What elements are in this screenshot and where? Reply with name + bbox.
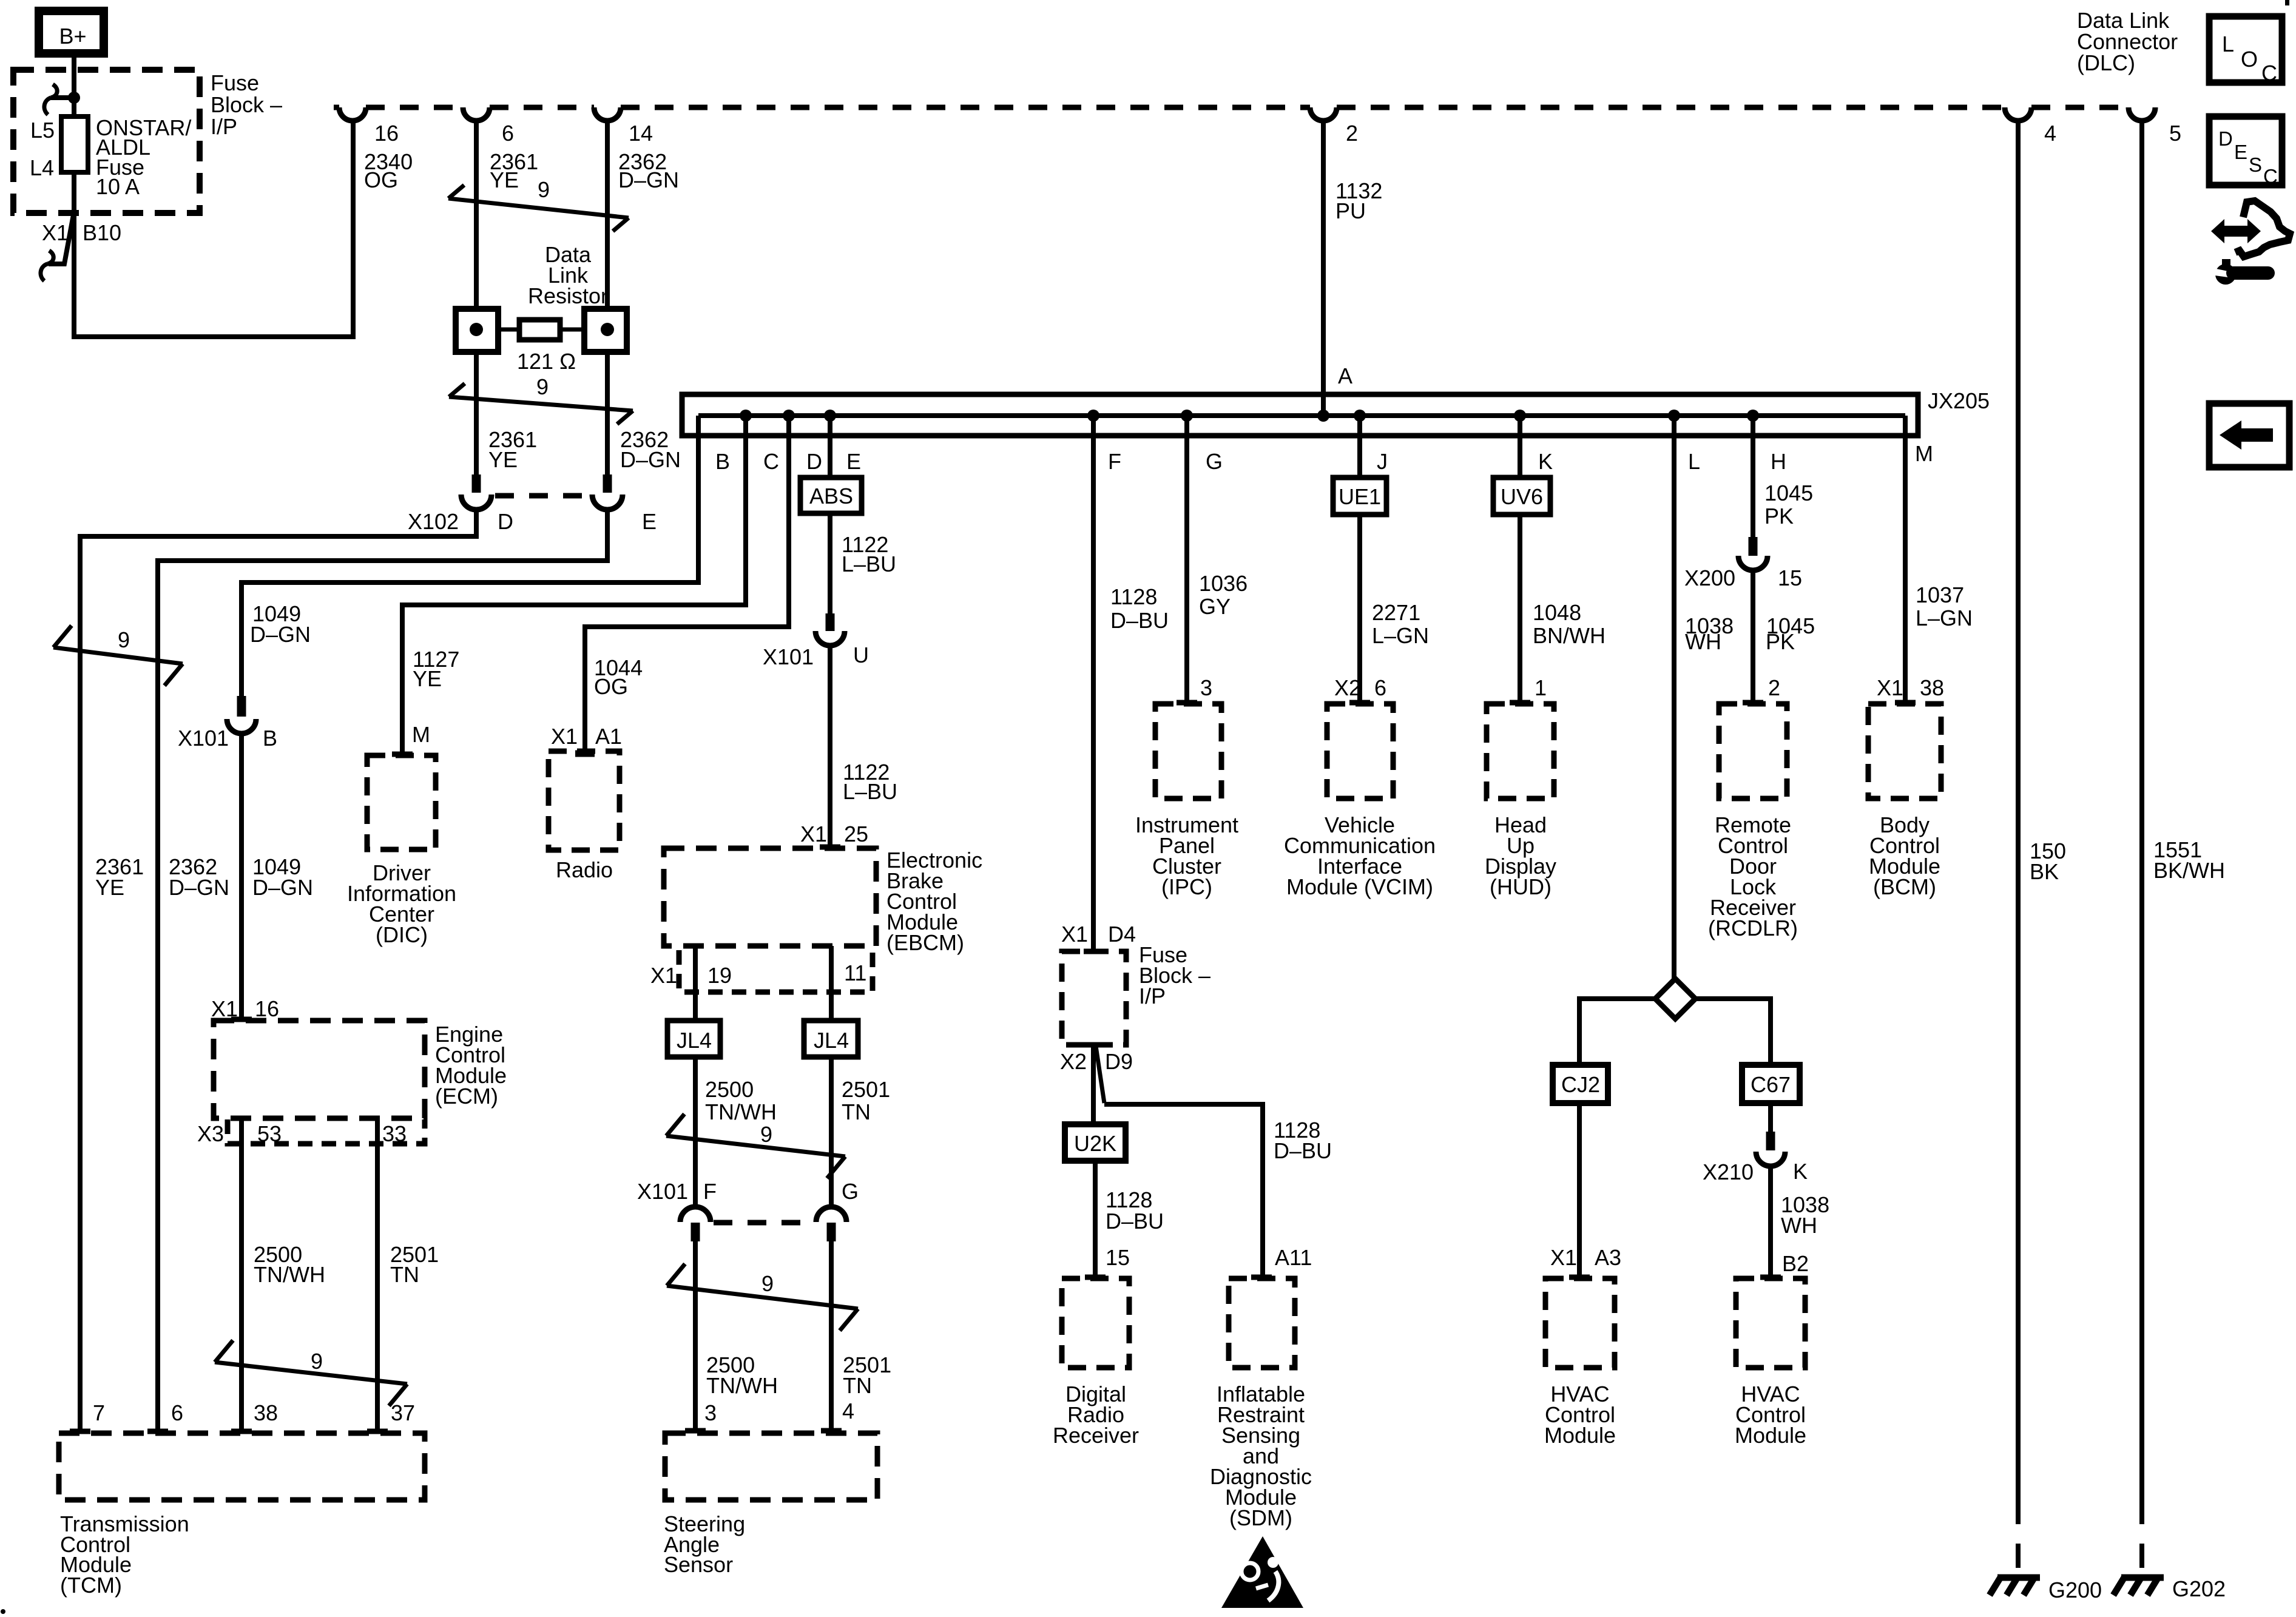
svg-text:C: C [763, 449, 779, 474]
svg-text:L4: L4 [30, 155, 54, 180]
svg-text:OG: OG [364, 167, 398, 192]
svg-text:Block –: Block – [211, 92, 282, 117]
svg-text:F: F [1108, 449, 1121, 474]
svg-text:2: 2 [1346, 121, 1358, 146]
svg-text:9: 9 [538, 177, 550, 202]
svg-text:TN: TN [843, 1373, 872, 1398]
svg-text:I/P: I/P [1139, 984, 1166, 1008]
svg-text:X200: X200 [1684, 565, 1735, 590]
svg-text:PU: PU [1335, 198, 1366, 223]
svg-text:11: 11 [844, 960, 866, 985]
svg-text:(RCDLR): (RCDLR) [1708, 916, 1798, 940]
svg-text:H: H [1771, 449, 1786, 474]
svg-text:L–GN: L–GN [1916, 606, 1973, 630]
svg-text:38: 38 [254, 1400, 278, 1425]
svg-text:3: 3 [704, 1400, 717, 1425]
svg-text:38: 38 [1920, 675, 1944, 700]
svg-text:UE1: UE1 [1339, 484, 1381, 509]
svg-text:A1: A1 [595, 724, 622, 749]
svg-text:GY: GY [1199, 594, 1231, 619]
svg-text:TN: TN [842, 1099, 871, 1124]
svg-text:D: D [2218, 127, 2233, 150]
svg-text:WH: WH [1781, 1213, 1817, 1238]
svg-text:JL4: JL4 [677, 1028, 712, 1053]
svg-text:33: 33 [382, 1121, 407, 1146]
svg-text:G202: G202 [2172, 1576, 2226, 1601]
svg-text:X1: X1 [551, 724, 578, 749]
svg-text:(DIC): (DIC) [376, 922, 428, 947]
svg-text:I/P: I/P [211, 114, 237, 139]
svg-text:9: 9 [311, 1349, 323, 1374]
svg-text:53: 53 [257, 1121, 282, 1146]
svg-text:X3: X3 [197, 1121, 224, 1146]
svg-text:19: 19 [707, 963, 732, 988]
svg-text:Resistor: Resistor [528, 283, 608, 308]
svg-text:10 A: 10 A [96, 174, 140, 199]
svg-text:G: G [1206, 449, 1223, 474]
svg-text:A3: A3 [1595, 1245, 1621, 1270]
svg-text:Receiver: Receiver [1053, 1423, 1139, 1448]
svg-text:D–BU: D–BU [1110, 608, 1169, 633]
svg-text:1037: 1037 [1916, 582, 1964, 607]
svg-text:JL4: JL4 [814, 1028, 849, 1053]
svg-text:E: E [2234, 141, 2247, 163]
svg-text:16: 16 [374, 121, 399, 146]
svg-text:PK: PK [1766, 629, 1795, 654]
svg-text:D–GN: D–GN [620, 447, 681, 472]
svg-text:C: C [2261, 61, 2277, 86]
svg-text:(IPC): (IPC) [1161, 874, 1212, 899]
svg-text:BK/WH: BK/WH [2153, 858, 2225, 883]
svg-text:D–BU: D–BU [1274, 1138, 1332, 1163]
svg-text:Module: Module [1735, 1423, 1806, 1448]
svg-text:O: O [2241, 47, 2258, 72]
svg-text:CJ2: CJ2 [1561, 1072, 1600, 1097]
svg-text:L5: L5 [30, 118, 55, 143]
svg-text:K: K [1538, 449, 1553, 474]
svg-text:C67: C67 [1751, 1072, 1791, 1097]
svg-text:L: L [1688, 449, 1700, 474]
svg-text:TN/WH: TN/WH [705, 1099, 777, 1124]
svg-text:15: 15 [1778, 565, 1802, 590]
svg-text:Radio: Radio [556, 857, 613, 882]
svg-text:9: 9 [536, 374, 549, 399]
svg-text:A11: A11 [1275, 1245, 1312, 1270]
svg-text:X2: X2 [1334, 675, 1361, 700]
svg-text:Module (VCIM): Module (VCIM) [1286, 874, 1433, 899]
svg-text:25: 25 [844, 822, 868, 846]
svg-text:X2: X2 [1060, 1049, 1087, 1074]
svg-text:D4: D4 [1108, 922, 1136, 947]
svg-text:PK: PK [1764, 504, 1794, 528]
svg-text:1: 1 [1535, 675, 1547, 700]
svg-text:9: 9 [761, 1271, 774, 1296]
svg-text:14: 14 [629, 121, 653, 146]
svg-text:37: 37 [391, 1400, 415, 1425]
svg-text:A: A [1338, 363, 1352, 388]
svg-text:6: 6 [1374, 675, 1386, 700]
svg-text:JX205: JX205 [1928, 388, 1990, 413]
svg-text:7: 7 [93, 1400, 105, 1425]
svg-text:BK: BK [2030, 859, 2059, 884]
svg-text:UV6: UV6 [1501, 484, 1543, 509]
svg-text:B: B [263, 726, 277, 751]
svg-text:L–BU: L–BU [842, 552, 896, 576]
svg-text:X1: X1 [1877, 675, 1903, 700]
svg-text:2501: 2501 [842, 1077, 890, 1102]
svg-text:X1: X1 [1550, 1245, 1577, 1270]
svg-text:X1: X1 [1061, 922, 1088, 947]
svg-text:B: B [715, 449, 730, 474]
svg-text:D9: D9 [1105, 1049, 1133, 1074]
svg-text:1036: 1036 [1199, 571, 1248, 596]
svg-text:4: 4 [842, 1399, 854, 1423]
svg-text:B10: B10 [83, 220, 121, 245]
svg-text:2271: 2271 [1372, 600, 1420, 625]
svg-text:OG: OG [594, 674, 628, 699]
svg-text:YE: YE [488, 447, 518, 472]
svg-text:1048: 1048 [1533, 600, 1581, 625]
svg-text:5: 5 [2169, 121, 2181, 146]
svg-text:Module: Module [1544, 1423, 1616, 1448]
svg-text:YE: YE [490, 167, 519, 192]
svg-text:E: E [642, 509, 657, 534]
svg-text:2500: 2500 [705, 1077, 754, 1102]
svg-text:E: E [846, 449, 861, 474]
svg-text:TN/WH: TN/WH [254, 1262, 325, 1287]
svg-text:X1: X1 [800, 822, 827, 846]
svg-text:(HUD): (HUD) [1490, 874, 1551, 899]
svg-text:WH: WH [1685, 629, 1721, 654]
svg-text:C: C [2263, 165, 2278, 187]
svg-text:D–GN: D–GN [252, 875, 313, 900]
svg-text:(ECM): (ECM) [435, 1084, 498, 1109]
svg-text:9: 9 [760, 1122, 772, 1147]
svg-text:(EBCM): (EBCM) [886, 930, 964, 955]
svg-text:J: J [1377, 449, 1388, 474]
svg-text:X210: X210 [1703, 1160, 1754, 1184]
svg-text:B2: B2 [1782, 1251, 1809, 1276]
svg-text:D–GN: D–GN [618, 167, 679, 192]
svg-text:TN: TN [390, 1262, 419, 1287]
svg-text:6: 6 [502, 121, 514, 146]
svg-text:1045: 1045 [1764, 481, 1813, 505]
svg-text:F: F [703, 1179, 717, 1204]
svg-text:3: 3 [1200, 675, 1212, 700]
svg-text:X1: X1 [650, 963, 677, 988]
svg-text:TN/WH: TN/WH [706, 1373, 778, 1398]
svg-text:(TCM): (TCM) [60, 1573, 122, 1598]
svg-text:X101: X101 [763, 644, 814, 669]
svg-text:X1: X1 [42, 220, 69, 245]
svg-text:16: 16 [255, 996, 279, 1021]
svg-text:2: 2 [1768, 675, 1780, 700]
svg-text:K: K [1793, 1159, 1808, 1184]
svg-text:YE: YE [413, 666, 442, 691]
svg-text:4: 4 [2044, 121, 2056, 146]
svg-text:(DLC): (DLC) [2077, 50, 2135, 75]
svg-text:121 Ω: 121 Ω [517, 349, 576, 374]
svg-text:YE: YE [95, 875, 124, 900]
svg-text:B+: B+ [59, 24, 86, 49]
svg-text:L: L [2222, 32, 2234, 56]
svg-text:1128: 1128 [1110, 584, 1157, 609]
svg-text:BN/WH: BN/WH [1533, 623, 1606, 648]
svg-text:U: U [853, 643, 869, 667]
svg-text:D: D [806, 449, 822, 474]
svg-text:M: M [412, 722, 430, 747]
svg-text:X101: X101 [178, 726, 229, 751]
svg-text:U2K: U2K [1074, 1131, 1116, 1156]
svg-text:D: D [498, 509, 513, 534]
svg-text:D–BU: D–BU [1106, 1209, 1164, 1234]
svg-text:Sensor: Sensor [664, 1552, 733, 1577]
svg-text:S: S [2249, 154, 2262, 176]
svg-text:(SDM): (SDM) [1229, 1505, 1292, 1530]
svg-text:15: 15 [1106, 1245, 1130, 1270]
svg-text:9: 9 [118, 627, 130, 652]
svg-text:G200: G200 [2048, 1578, 2102, 1602]
svg-text:Fuse: Fuse [211, 70, 259, 95]
svg-text:L–GN: L–GN [1372, 623, 1429, 648]
svg-text:D–GN: D–GN [250, 622, 311, 647]
svg-text:X101: X101 [637, 1179, 688, 1204]
svg-text:X102: X102 [408, 509, 459, 534]
svg-text:D–GN: D–GN [169, 875, 229, 900]
svg-text:(BCM): (BCM) [1873, 874, 1936, 899]
svg-text:ABS: ABS [809, 484, 853, 508]
svg-text:6: 6 [171, 1400, 183, 1425]
svg-text:L–BU: L–BU [843, 779, 897, 804]
svg-text:M: M [1915, 441, 1933, 466]
svg-text:G: G [842, 1179, 859, 1204]
